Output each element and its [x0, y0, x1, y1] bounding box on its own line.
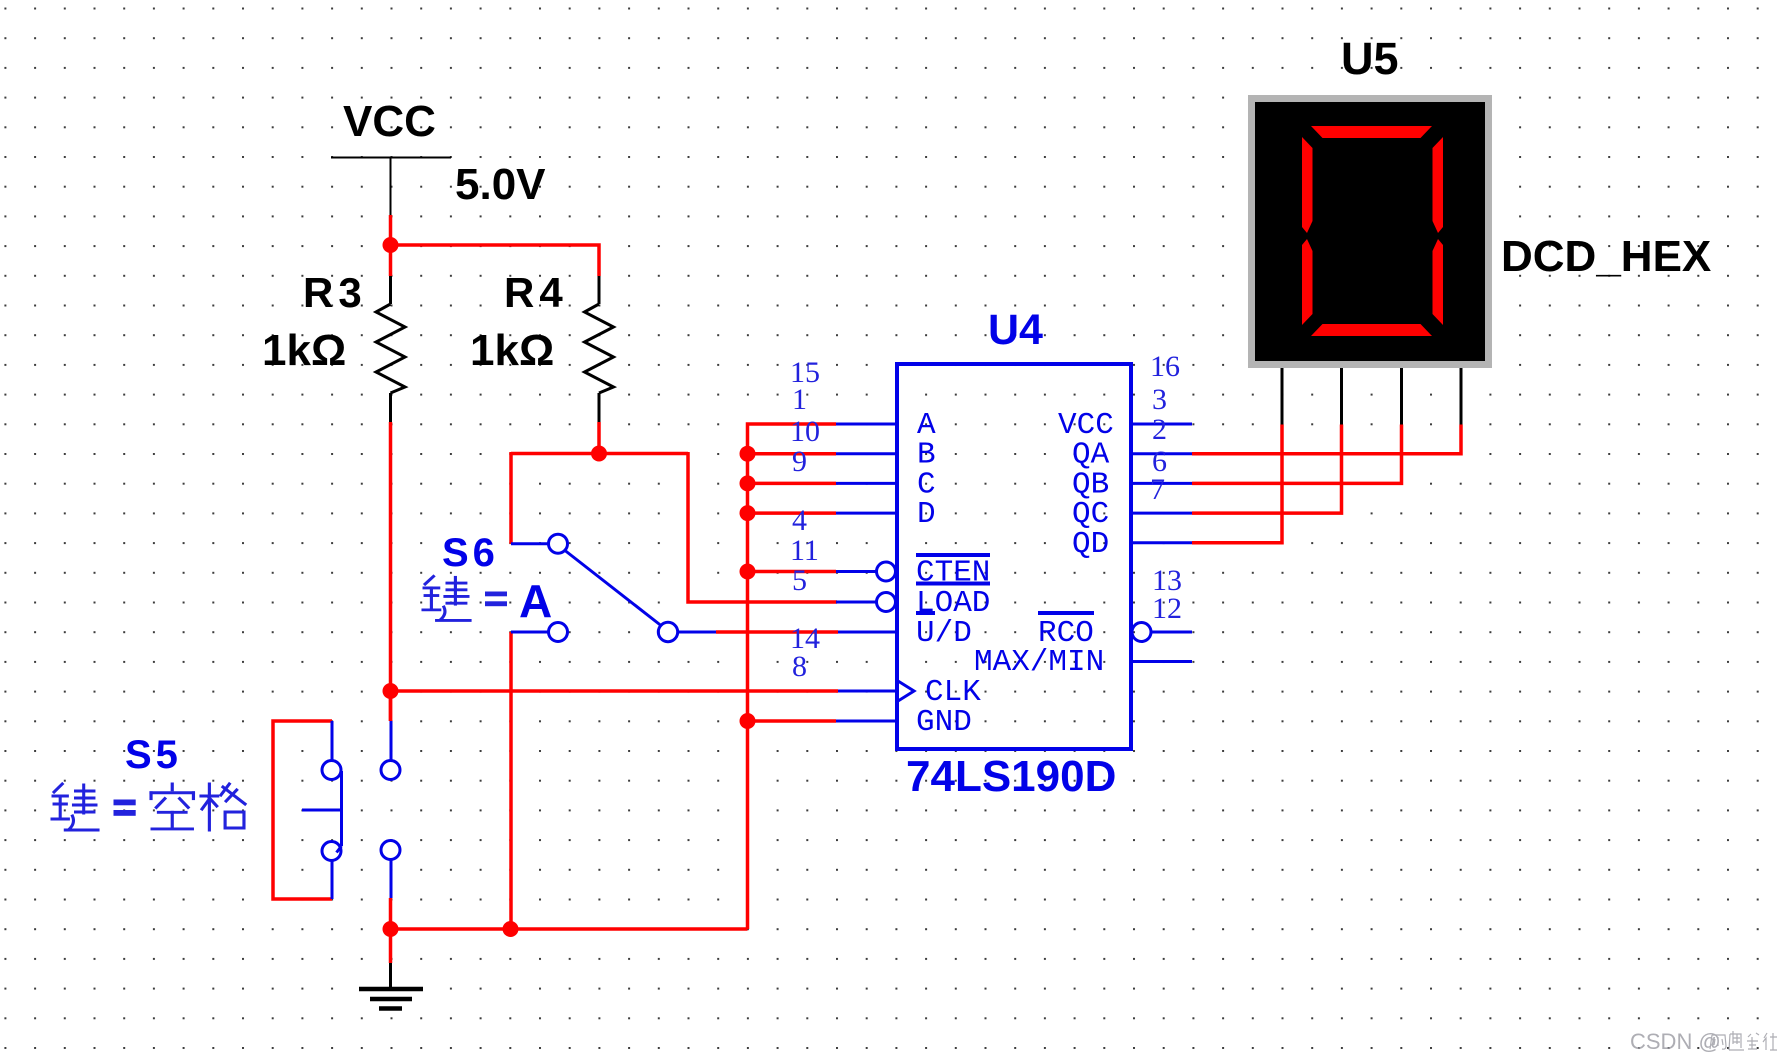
display segment a [1311, 126, 1432, 138]
wire QC to display pin 2 [1192, 425, 1342, 514]
svg-text:7: 7 [1150, 473, 1165, 506]
node junction bus GND [740, 713, 756, 729]
wire QB to display pin 3 [1192, 425, 1402, 484]
wire QA to display pin 4 [1192, 425, 1461, 454]
pin 4 stub CTEN active-low bubble [836, 562, 896, 581]
wire QD to display pin 1 [1192, 425, 1282, 543]
node junction bus D [740, 505, 756, 521]
wire down to S6 throw 1 [509, 452, 513, 544]
display segment b [1433, 137, 1444, 233]
wire S5 parallel loop box [273, 721, 332, 899]
svg-text:8: 8 [792, 650, 807, 683]
pin 12 stub MAX/MIN [1131, 660, 1192, 663]
pin 13 stub RCO active-low bubble [1132, 623, 1192, 642]
resistor R3 [376, 276, 405, 422]
pin 5 stub U/D [838, 631, 897, 634]
display pin 3 lead [1400, 368, 1403, 425]
pin 15 stub A [836, 423, 897, 426]
wire tap C [748, 482, 837, 486]
display segment c [1433, 239, 1444, 325]
key label of S6: equals sign [485, 592, 507, 607]
pin 16 stub VCC [1131, 423, 1192, 426]
svg-text:U5: U5 [1341, 33, 1399, 84]
ground symbol [359, 963, 423, 1009]
wire VCC node to R4 top [391, 245, 600, 276]
svg-text:VCC: VCC [343, 97, 436, 146]
svg-text:3: 3 [1152, 383, 1167, 416]
svg-text:4: 4 [792, 504, 807, 537]
svg-text:R3: R3 [303, 269, 367, 316]
key label of S5: hanzi ge [201, 784, 245, 830]
pin 11 stub LOAD active-low bubble [836, 593, 896, 612]
pin 3 stub QA [1131, 452, 1192, 455]
key label of S6: hanzi jian [423, 576, 470, 620]
resistor R4 [585, 276, 614, 422]
wire tap B [748, 452, 837, 456]
wire R4 bottom to net row y=453 [597, 422, 601, 454]
svg-text:5.0V: 5.0V [455, 160, 546, 209]
wire S6 pole to U/D pin [716, 630, 838, 634]
node junction CLK tee [383, 683, 399, 699]
wire down then right to LOAD pin [688, 452, 837, 602]
seven-segment display U5 body [1248, 95, 1492, 368]
wire tap CTEN [748, 570, 837, 574]
wire CLK net [391, 689, 839, 693]
svg-text:74LS190D: 74LS190D [906, 752, 1116, 801]
node junction ground rail left [383, 921, 399, 937]
pin 9 stub D [836, 512, 897, 515]
wire tap D [748, 511, 837, 515]
pin 2 stub QB [1131, 482, 1192, 485]
switch S5 pushbutton [302, 721, 400, 899]
svg-text:A: A [519, 575, 552, 627]
display pin 2 lead [1340, 368, 1343, 425]
svg-text:2: 2 [1152, 413, 1167, 446]
node junction bus C [740, 475, 756, 491]
wire S5 branch red segments [389, 691, 393, 721]
wire ground rail [391, 927, 748, 931]
svg-text:S6: S6 [442, 531, 499, 575]
node junction VCC/R3/R4 [383, 237, 399, 253]
node junction ground rail S6 branch [503, 921, 519, 937]
pin 1 stub B [836, 452, 897, 455]
wire tap GND [748, 719, 837, 723]
svg-text:R4: R4 [504, 269, 568, 316]
svg-text:MAX/MIN: MAX/MIN [974, 645, 1104, 680]
wire S6 throw 2 down to ground rail [509, 632, 513, 929]
wire horizontal net y=453 [511, 452, 688, 456]
svg-text:9: 9 [792, 445, 807, 478]
svg-text:12: 12 [1152, 592, 1182, 625]
svg-text:CSDN @: CSDN @ [1630, 1029, 1721, 1054]
svg-text:10: 10 [790, 415, 820, 448]
svg-text:5: 5 [792, 564, 807, 597]
svg-text:QD: QD [1072, 527, 1109, 562]
svg-text:1kΩ: 1kΩ [470, 326, 554, 375]
pin 6 stub QC [1131, 512, 1192, 515]
display segment d [1311, 324, 1432, 336]
wire data bus vertical with taps to A B C D CTEN GND [748, 424, 837, 929]
svg-text:16: 16 [1150, 350, 1180, 383]
svg-text:11: 11 [790, 534, 819, 567]
svg-text:U4: U4 [988, 306, 1043, 354]
svg-text:U/D: U/D [916, 616, 972, 651]
svg-text:1kΩ: 1kΩ [262, 326, 346, 375]
display pin 4 lead [1460, 368, 1463, 425]
key label of S5: hanzi kong [151, 784, 193, 829]
display segment f [1302, 137, 1313, 233]
key label of S5: equals sign [114, 800, 136, 816]
svg-text:D: D [917, 497, 936, 532]
node junction R4 bottom [591, 446, 607, 462]
pin 8 stub GND [836, 720, 897, 723]
svg-text:DCD_HEX: DCD_HEX [1501, 232, 1711, 281]
op-amp U4 74LS190D body [897, 364, 1131, 749]
power VCC symbol [331, 158, 451, 216]
wire VCC stem red segment [389, 215, 393, 276]
svg-text:1: 1 [792, 383, 807, 416]
svg-text:S5: S5 [125, 733, 182, 777]
display segment e [1302, 239, 1313, 325]
watermark CSDN [1630, 1029, 1777, 1054]
wire R3 bottom down to S5 [389, 422, 393, 721]
pin 14 stub CLK with edge triangle [838, 681, 914, 701]
pin 10 stub C [836, 482, 897, 485]
key label of S5: hanzi jian [52, 784, 98, 830]
node junction bus B [740, 446, 756, 462]
svg-text:GND: GND [916, 705, 972, 740]
pin 7 stub QD [1131, 541, 1192, 544]
switch S6 SPDT [511, 534, 716, 642]
node junction bus CTEN [740, 564, 756, 580]
display pin 1 lead [1281, 368, 1284, 425]
